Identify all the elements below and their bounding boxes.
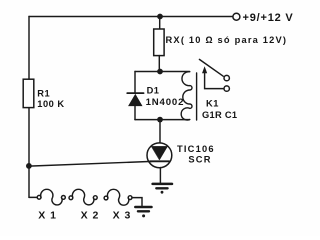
- svg-text:100 K: 100 K: [37, 99, 64, 109]
- svg-text:SCR: SCR: [188, 154, 211, 164]
- svg-text:R1: R1: [37, 89, 50, 99]
- sensor loop X1: [41, 189, 62, 205]
- resistor R1: [23, 79, 34, 107]
- diode D1: [127, 93, 143, 106]
- svg-text:RX( 10 Ω só para 12V): RX( 10 Ω só para 12V): [166, 35, 288, 45]
- wire top horizontal rail: [29, 16, 233, 18]
- terminal +9/+12V: [233, 13, 240, 20]
- svg-text:G1R C1: G1R C1: [202, 110, 237, 120]
- wire X3 to ground: [132, 198, 142, 206]
- wire SCR gate: [29, 161, 152, 166]
- resistor RX: [154, 29, 164, 56]
- ground sensor chain: [135, 207, 151, 217]
- wire D1 loop top: [135, 71, 190, 73]
- node junction dot top of D1 loop: [157, 69, 163, 75]
- wire SCR anode lead: [159, 120, 161, 143]
- node terminal circle right of X3: [128, 196, 132, 200]
- svg-text:X 1: X 1: [38, 210, 57, 222]
- svg-text:TIC106: TIC106: [177, 144, 215, 154]
- sensor loop X2: [72, 189, 94, 205]
- node junction dot bottom of D1 loop: [157, 117, 163, 123]
- relay switch blade: [199, 59, 223, 76]
- node terminal circle right of X2: [93, 196, 97, 200]
- svg-text:X 2: X 2: [81, 210, 100, 222]
- node terminal circle left of X1: [37, 195, 41, 199]
- wire RX top lead: [159, 17, 161, 30]
- node terminal circle left of X3: [104, 196, 108, 200]
- wire left vertical rail: [28, 17, 30, 198]
- svg-text:D1: D1: [147, 85, 160, 95]
- svg-text:1N4002: 1N4002: [146, 97, 185, 108]
- relay armature arrow: [202, 66, 224, 88]
- node terminal circle right of X1: [62, 196, 66, 200]
- wire D1 upper lead: [134, 72, 136, 93]
- wire SCR cathode lead: [159, 168, 161, 184]
- svg-text:+9/+12 V: +9/+12 V: [243, 12, 294, 24]
- wire D1 lower lead: [134, 106, 136, 120]
- node junction dot gate / left rail: [26, 163, 32, 169]
- ground SCR cathode: [153, 184, 172, 194]
- SCR TIC106: [147, 143, 172, 168]
- wire bottom to sensor chain: [29, 196, 37, 198]
- svg-text:K1: K1: [206, 98, 219, 108]
- relay contact lower: [224, 86, 229, 91]
- node junction dot at rail / RX: [157, 14, 163, 20]
- relay core bar: [196, 73, 198, 120]
- relay contact upper: [224, 75, 229, 80]
- relay coil K1: [181, 72, 192, 120]
- sensor loop X3: [107, 189, 128, 205]
- node terminal circle left of X2: [69, 196, 73, 200]
- wire D1 loop bottom: [135, 119, 190, 121]
- wire RX bottom lead: [158, 56, 160, 72]
- svg-text:X 3: X 3: [113, 210, 132, 222]
